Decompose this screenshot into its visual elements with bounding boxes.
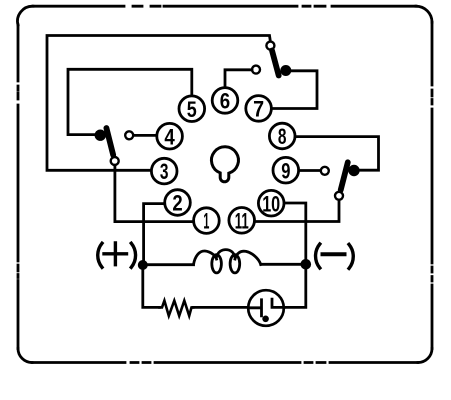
bottom-right corner <box>418 349 432 363</box>
wire: (+) to coil <box>143 263 194 266</box>
wire: left switch pivot down to pin 1 rail <box>114 165 117 221</box>
svg-text:9: 9 <box>281 158 290 183</box>
top-right corner <box>416 6 432 22</box>
wire: pin 10 down to (-) vertical <box>285 203 305 264</box>
top edge <box>33 5 416 8</box>
wire: right switch pivot down to pin 11 rail <box>256 200 339 222</box>
right edge <box>431 22 434 348</box>
node (+) junction dot <box>138 260 148 270</box>
bottom-left corner <box>18 349 32 363</box>
wire: pin 1 rail to junction <box>115 220 193 223</box>
pin 7 <box>246 96 272 122</box>
wire loop B: pin 5 up, left and down to left switch <box>68 69 192 134</box>
pin 9 <box>273 157 299 183</box>
wire: coil to (-) <box>261 263 306 266</box>
switch SW-left closed contact dot <box>95 130 106 141</box>
switch SW-right pivot contact <box>335 192 343 200</box>
switch SW-left open contact (to pin 4) <box>125 131 133 139</box>
svg-text:6: 6 <box>220 89 230 114</box>
lamp right electrode <box>272 299 284 307</box>
switch SW-right closed contact dot <box>348 165 359 176</box>
svg-text:11: 11 <box>235 208 249 233</box>
left edge <box>17 25 20 349</box>
wire: closed contact to pin 7 <box>273 71 318 109</box>
svg-text:2: 2 <box>172 191 182 216</box>
lamp gas dot <box>262 316 269 323</box>
pin 5 <box>179 96 205 122</box>
pin 11 <box>229 208 255 234</box>
pin 10 <box>258 190 284 216</box>
svg-text:3: 3 <box>160 159 169 184</box>
switch SW-top armature blade <box>272 51 279 76</box>
wire: (+) down to lamp branch <box>143 265 160 307</box>
svg-text:7: 7 <box>253 97 264 122</box>
switch SW-top pivot contact <box>266 42 274 50</box>
pin 2 <box>165 190 191 216</box>
pin 1 <box>194 208 220 234</box>
label (-) <box>316 244 354 268</box>
switch SW-top open contact (to pin 6) <box>252 66 260 74</box>
svg-text:8: 8 <box>278 124 287 149</box>
svg-text:10: 10 <box>262 191 280 216</box>
svg-text:5: 5 <box>187 97 197 122</box>
wire: open contact to pin 4 <box>133 134 155 137</box>
wire: pin 2 to (+) vertical <box>144 204 164 265</box>
wire: pin 8 across and down to right switch contact <box>296 137 379 171</box>
top-left corner <box>18 6 33 25</box>
switch SW-left armature blade <box>106 128 113 155</box>
coil L1 (relay coil) <box>194 250 261 273</box>
wire: pin 9 to open contact <box>300 169 321 172</box>
pin 8 <box>269 123 295 149</box>
resistor R1 (zigzag) <box>160 301 194 316</box>
switch SW-right armature blade <box>341 162 348 190</box>
pin 6 <box>212 88 238 114</box>
keyhole (socket keyway) <box>211 147 238 182</box>
neon lamp DS1 envelope <box>248 290 284 326</box>
svg-text:1: 1 <box>203 209 209 234</box>
switch SW-right open contact (to pin 9) <box>321 167 329 175</box>
pin 4 <box>157 123 183 149</box>
wire loop A: pin 3 up and across top to switch pivot <box>47 36 270 171</box>
switch SW-left pivot contact <box>111 157 119 165</box>
wire: open contact to pin 6 <box>225 70 252 87</box>
lamp left electrode <box>249 300 262 316</box>
label (+) <box>98 243 136 267</box>
node (-) junction dot <box>301 259 312 270</box>
bottom edge <box>32 361 418 364</box>
wire: resistor to lamp <box>193 306 248 309</box>
svg-text:4: 4 <box>164 124 175 149</box>
wire: lamp to (-) <box>284 264 306 307</box>
pin 3 <box>151 158 177 184</box>
switch SW-top closed contact dot <box>280 65 291 76</box>
